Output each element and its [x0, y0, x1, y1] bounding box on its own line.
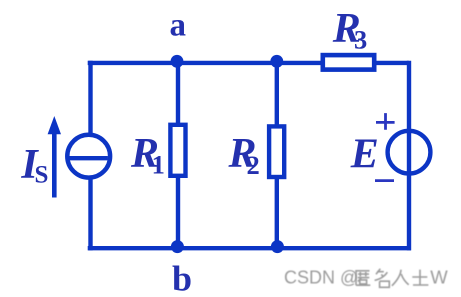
node dot bottom of R2 branch [271, 240, 284, 253]
wire top segment node a to node above R2 [88, 61, 277, 65]
label R2 [228, 131, 260, 180]
wire right branch through E [407, 61, 411, 251]
watermark CJK glyph ming (name) [375, 269, 390, 288]
current source IS circle [67, 135, 110, 178]
polarity minus sign [375, 179, 394, 182]
current direction arrow head [48, 116, 61, 134]
polarity plus sign [376, 113, 395, 130]
label R1 [130, 131, 165, 180]
label IS [20, 142, 48, 189]
svg-text:CSDN @: CSDN @ [284, 268, 358, 288]
svg-text:S: S [35, 162, 49, 189]
wire left branch lower (current source to bottom corner) [88, 177, 92, 250]
resistor R3 body [323, 55, 374, 70]
wire top segment node above R2 to R3 [277, 61, 324, 65]
watermark CJK glyph ni (hidden) [356, 270, 370, 285]
wire bottom rail [88, 246, 411, 250]
resistor R2 body [269, 126, 284, 177]
label R3 [332, 6, 367, 54]
current source IS horizontal bar [70, 156, 108, 160]
svg-text:W: W [430, 267, 448, 288]
svg-text:1: 1 [152, 150, 165, 180]
current direction arrow shaft [52, 130, 57, 198]
node dot b junction (bottom of R1 branch) [171, 240, 184, 253]
svg-text:a: a [170, 8, 187, 44]
svg-text:3: 3 [354, 24, 367, 54]
watermark CJK glyph ren (person) [392, 270, 409, 286]
svg-text:2: 2 [247, 150, 260, 180]
svg-text:E: E [350, 132, 379, 178]
wire left branch upper (top corner down to current source) [88, 61, 92, 136]
resistor R1 body [170, 125, 185, 176]
watermark CJK glyph shi (scholar) [412, 270, 428, 285]
node dot a junction [171, 55, 184, 68]
svg-text:b: b [172, 259, 192, 297]
wire R2 branch vertical [275, 61, 279, 248]
wire top segment R3 to top-right corner [373, 61, 409, 65]
node dot top of R2 branch [270, 55, 283, 68]
wire R1 branch vertical [176, 61, 180, 248]
voltage source E circle [388, 131, 431, 174]
